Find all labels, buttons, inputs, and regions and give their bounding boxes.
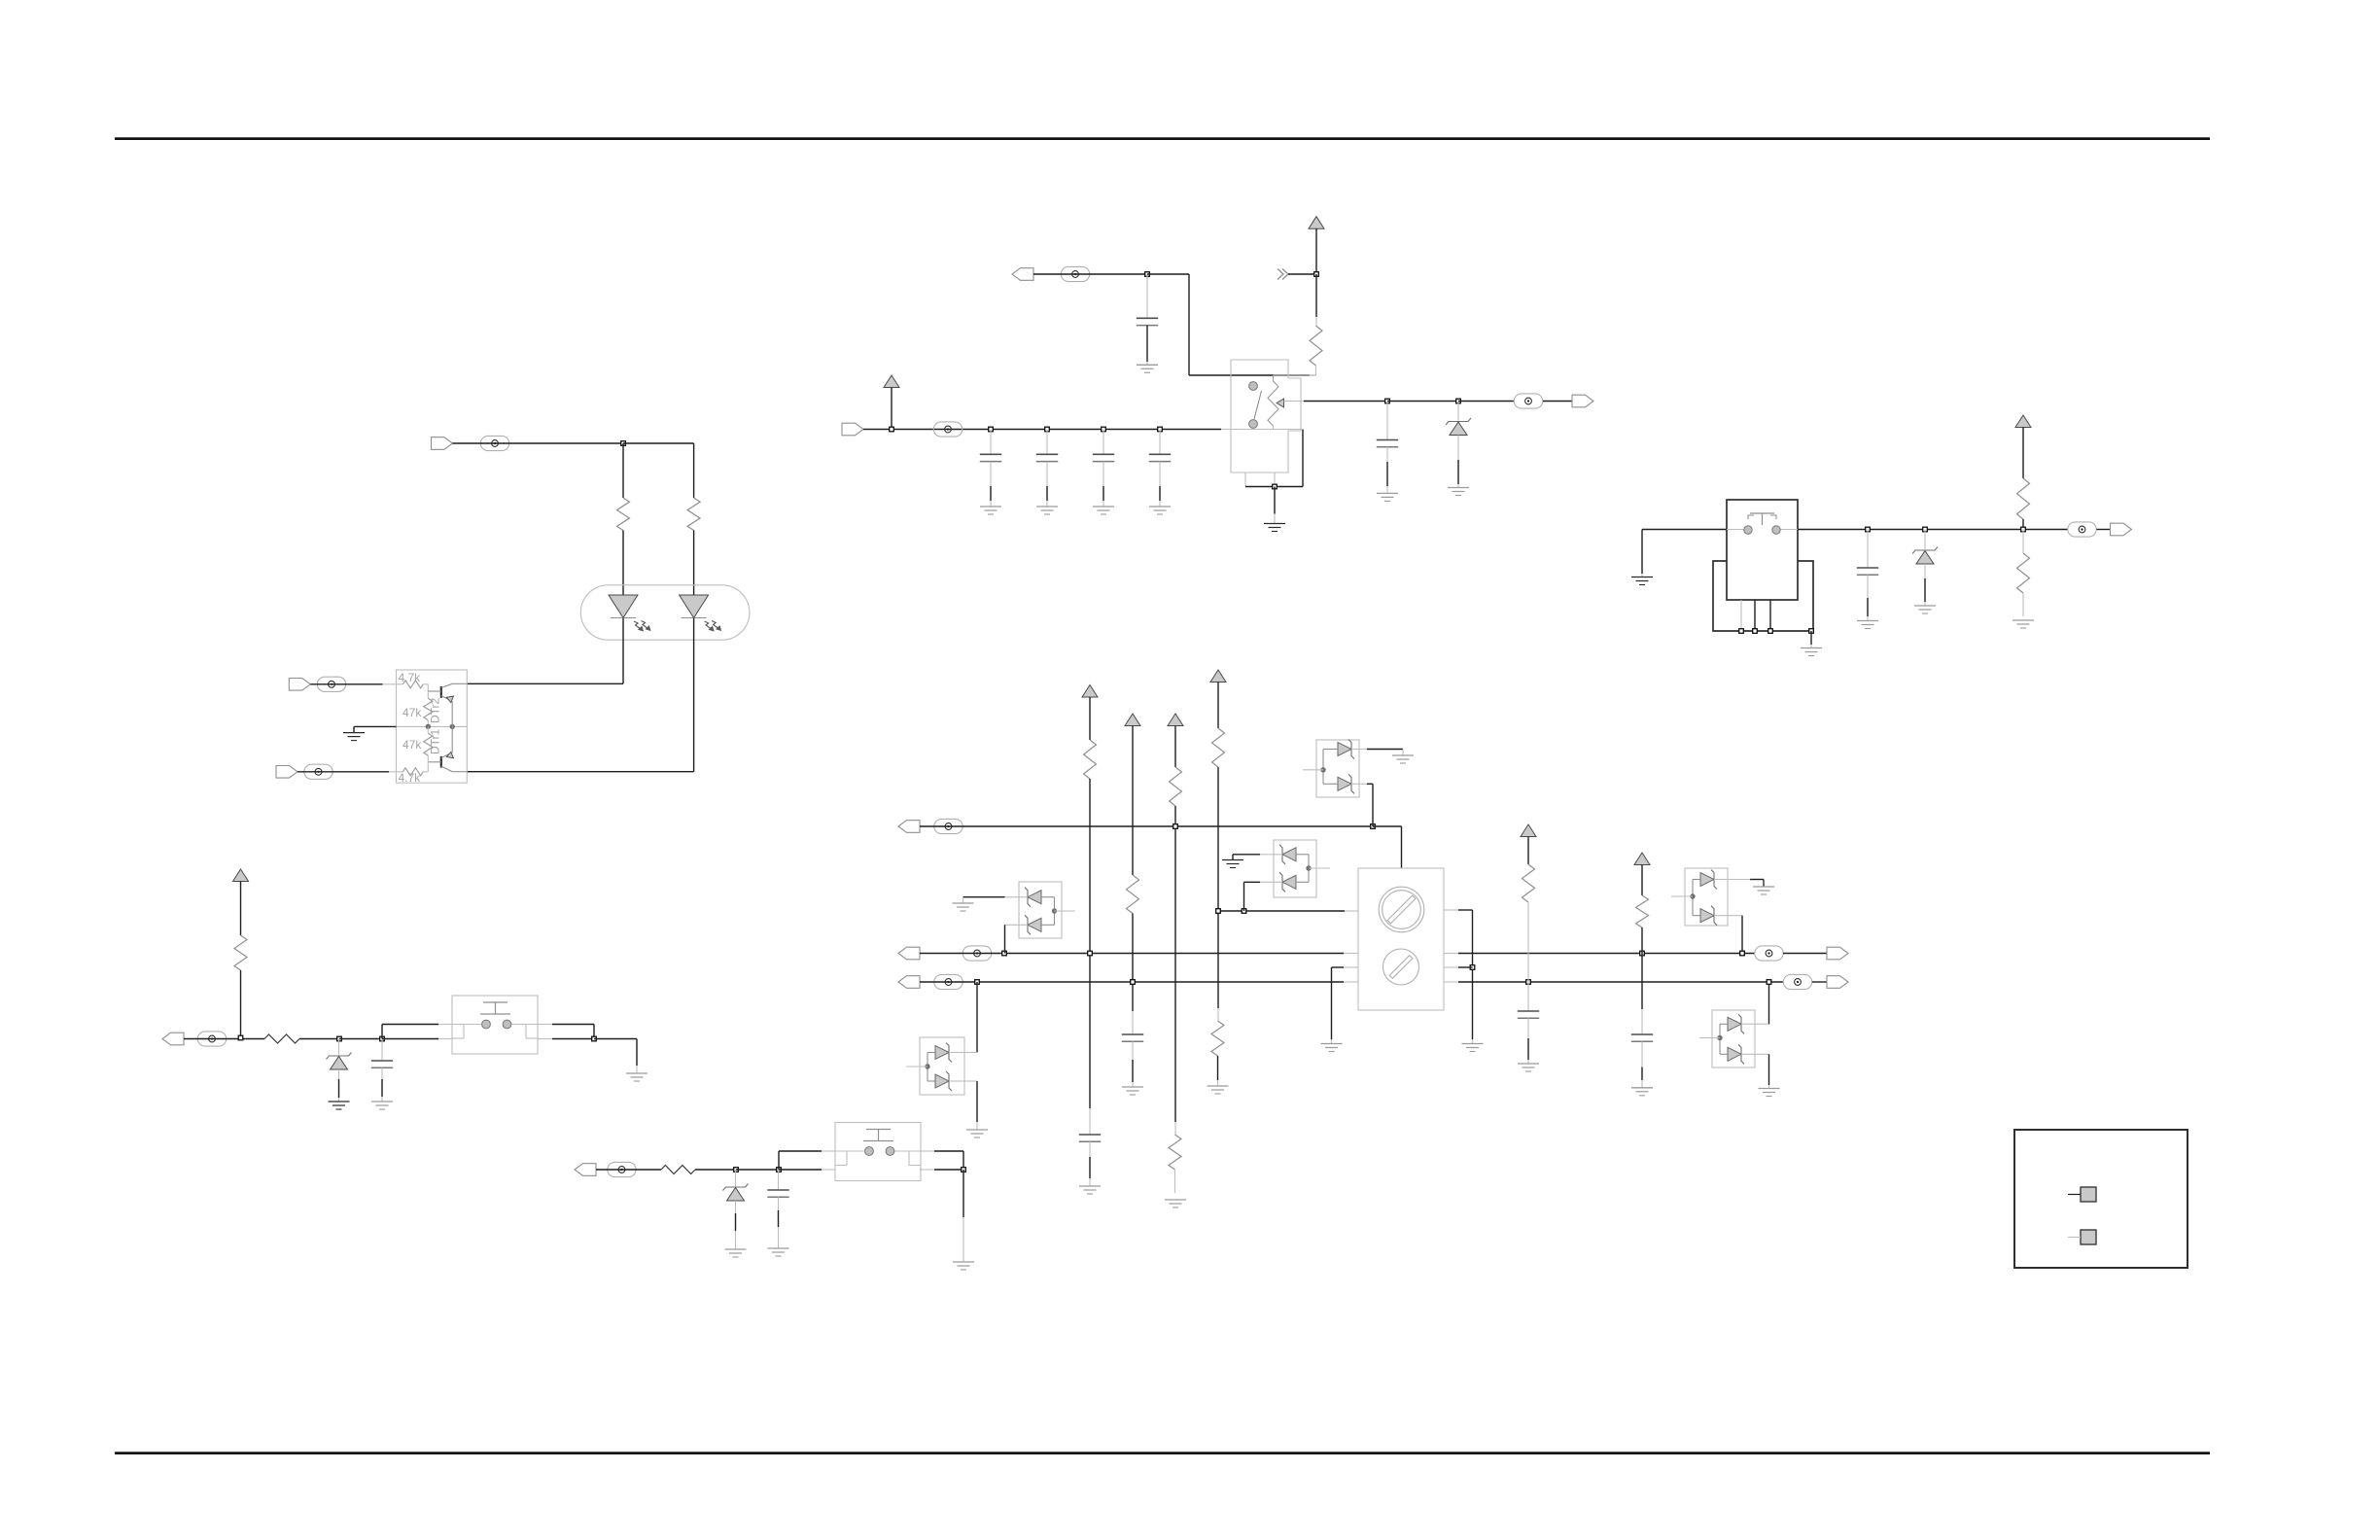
wire (component lead) bbox=[381, 1067, 383, 1079]
wire to ground bbox=[962, 1170, 964, 1217]
ESD diode D4b bbox=[1700, 906, 1717, 926]
wire (component lead) bbox=[1386, 447, 1388, 462]
wire (component lead) bbox=[1132, 1011, 1134, 1034]
ground for RV1 right bbox=[1462, 1044, 1484, 1052]
node D3 common bbox=[1052, 909, 1056, 913]
wire frame ground bbox=[1810, 631, 1812, 645]
wire bbox=[1217, 1056, 1219, 1080]
capacitor C7 bbox=[1857, 568, 1878, 575]
connector arrow (LED control 1) bbox=[289, 679, 310, 691]
ESD diode pack D3 outline bbox=[1019, 882, 1062, 938]
wire net C vertical bbox=[1174, 806, 1176, 1122]
wire bbox=[1924, 578, 1926, 602]
wire F+ stem bbox=[1132, 726, 1134, 876]
power rail H+ bbox=[1210, 670, 1226, 682]
ground for C5 bbox=[1093, 507, 1114, 514]
wire (component lead) bbox=[1344, 966, 1358, 968]
wire (component lead) bbox=[1132, 1041, 1134, 1060]
wire (component lead) bbox=[1344, 953, 1358, 955]
wire (component lead) bbox=[1102, 462, 1104, 486]
wire down to switch bbox=[1188, 274, 1190, 375]
junction frame pin 2 bbox=[1753, 629, 1758, 634]
wire (component lead) bbox=[1728, 915, 1742, 917]
wire (component lead) bbox=[1005, 924, 1020, 926]
potentiometer R4 element bbox=[1268, 381, 1278, 426]
D5 common wire bbox=[1720, 1024, 1728, 1054]
wire LED cathode A bbox=[622, 618, 624, 684]
wire bbox=[736, 1169, 779, 1171]
junction bus A / R12 bbox=[1173, 824, 1178, 829]
wire bbox=[1641, 530, 1643, 575]
wire (component lead) bbox=[964, 1052, 977, 1054]
switch S2 contact a bbox=[1744, 526, 1752, 534]
junction bus C / D5 bbox=[1767, 980, 1771, 985]
wire jog down bbox=[962, 1151, 964, 1170]
wire bus net B out bbox=[1458, 953, 1755, 955]
resistor R10 (pull-up) bbox=[1084, 740, 1097, 779]
ferrite bead E13 bbox=[1755, 946, 1783, 961]
zener diode VR2 bbox=[1912, 547, 1938, 565]
wire to ground bbox=[1472, 910, 1474, 1039]
wire to button contact bbox=[382, 1024, 438, 1026]
zener diode VR3 bbox=[327, 1053, 352, 1070]
ESD diode D3a bbox=[1025, 888, 1041, 907]
connector J2 pin 2 lead bbox=[2068, 1237, 2081, 1239]
ferrite bead E5 bbox=[1514, 394, 1542, 408]
wire from button contact bbox=[552, 1024, 594, 1026]
potentiometer R4 wiper arrow bbox=[1277, 399, 1284, 407]
wire R16 lead bbox=[1527, 902, 1529, 982]
wire (component lead) bbox=[1457, 484, 1459, 488]
wire (component lead) bbox=[735, 1201, 737, 1213]
ground for D3a bbox=[953, 903, 974, 911]
wire bbox=[1367, 783, 1373, 785]
S2 frame pin 3 bbox=[1769, 600, 1771, 631]
wire (component lead) bbox=[1714, 915, 1728, 917]
connector arrow (switched supply out) bbox=[1012, 268, 1033, 281]
connector arrow (net C out) bbox=[1827, 976, 1848, 989]
wire pot right pin bbox=[1458, 909, 1473, 911]
wire (component lead) bbox=[1019, 924, 1028, 926]
wire (component lead) bbox=[990, 501, 992, 507]
D2 common stub bbox=[1309, 867, 1330, 869]
connector arrow (supply in) bbox=[842, 423, 863, 436]
ESD diode D3b bbox=[1025, 915, 1041, 934]
junction button output node bbox=[592, 1036, 597, 1041]
ESD diode D5b bbox=[1728, 1044, 1744, 1064]
connector arrow (button 2 out) bbox=[575, 1164, 596, 1176]
trimmer RV1a bbox=[1379, 887, 1424, 932]
wire (component lead) bbox=[427, 684, 429, 699]
capacitor C9 bbox=[767, 1190, 788, 1197]
ESD diode pack D5 outline bbox=[1712, 1010, 1755, 1067]
LED DS1b bbox=[680, 595, 709, 618]
wire (component lead) bbox=[1472, 1039, 1474, 1044]
wire to button base bbox=[382, 1038, 438, 1040]
connector arrow (net B) bbox=[898, 947, 920, 960]
ESD diode D6a bbox=[935, 1043, 952, 1063]
wire I+ stem bbox=[1527, 837, 1529, 865]
wire (component lead) bbox=[1402, 750, 1404, 756]
ground for C4 bbox=[1036, 507, 1058, 514]
ground for RV1 left bbox=[1321, 1044, 1343, 1052]
wire (component lead) bbox=[1005, 896, 1020, 898]
resistor R13 bbox=[1169, 1135, 1181, 1170]
LED DS1a bbox=[609, 595, 638, 618]
ground for D6b bbox=[966, 1130, 988, 1137]
node D5 common bbox=[1718, 1035, 1722, 1039]
junction B+ node bbox=[1314, 272, 1319, 277]
power switch S2 actuator bbox=[1748, 513, 1776, 525]
wire D5a to bus C out bbox=[1768, 982, 1770, 1024]
resistor 47k upper bbox=[424, 698, 433, 719]
wire bbox=[1641, 927, 1643, 1009]
wire S2 internal stub right bbox=[1781, 529, 1799, 531]
power switch S2 inner case bbox=[1727, 500, 1798, 600]
wire bbox=[1147, 273, 1189, 275]
D4 common stub bbox=[1671, 895, 1693, 897]
junction bus B / ESD bbox=[1002, 951, 1007, 956]
S2 frame pin 1 bbox=[1740, 600, 1742, 631]
ESD diode pack D4 outline bbox=[1685, 868, 1728, 926]
wire bbox=[1046, 486, 1048, 501]
svg-text:47k: 47k bbox=[402, 706, 422, 719]
wire (component lead) bbox=[1046, 462, 1048, 486]
ground stub D4a bbox=[1763, 880, 1765, 888]
off-page chevron (raw supply) bbox=[1277, 269, 1288, 280]
wire bbox=[1302, 430, 1304, 487]
wire (component lead) bbox=[538, 1024, 552, 1026]
wire (component lead) bbox=[1274, 514, 1276, 524]
svg-text:4.7k: 4.7k bbox=[399, 671, 422, 684]
wire (component lead) bbox=[1386, 486, 1388, 493]
value label 47k (upper) bbox=[402, 706, 422, 719]
junction frame corner bbox=[1809, 629, 1814, 634]
connector arrow (button 1 out) bbox=[162, 1032, 184, 1045]
wire internal switch bus bbox=[1231, 429, 1288, 431]
ground for R13 bbox=[1165, 1200, 1186, 1207]
wire (component lead) bbox=[1315, 366, 1317, 375]
resistor R8 (series) bbox=[264, 1034, 299, 1043]
ferrite bead E14 bbox=[1783, 974, 1811, 989]
wire (component lead) bbox=[949, 1080, 964, 1082]
ground stub D3a bbox=[962, 897, 964, 903]
wire (component lead) bbox=[383, 683, 403, 685]
value label 4.7k (upper) bbox=[399, 671, 422, 684]
resistor 4.7k base DTr1 bbox=[402, 768, 423, 776]
designator DTr2 bbox=[429, 697, 442, 723]
wire (component lead) bbox=[1221, 429, 1231, 431]
ground for S2 frame bbox=[1801, 648, 1822, 656]
connector J2 pin pad 2 bbox=[2081, 1230, 2096, 1244]
svg-text:4.7k: 4.7k bbox=[399, 771, 422, 785]
wire J+ stem bbox=[1641, 865, 1643, 896]
wire (component lead) bbox=[1810, 645, 1812, 648]
wire (component lead) bbox=[1527, 982, 1529, 1011]
ground for C10 bbox=[1079, 1186, 1101, 1194]
wire bbox=[1458, 401, 1514, 402]
wire (component lead) bbox=[962, 1217, 964, 1262]
ESD diode D1b bbox=[1338, 774, 1354, 793]
wire bbox=[1159, 486, 1161, 501]
wire net D vertical bbox=[1217, 767, 1219, 1008]
ESD diode pack D6 outline bbox=[920, 1037, 964, 1095]
wire bbox=[1132, 1060, 1134, 1082]
pushbutton switch S3 bbox=[452, 996, 538, 1054]
wire supply bus bbox=[863, 429, 1221, 431]
junction bus C / R16 bbox=[1526, 980, 1531, 985]
ground for C6 bbox=[1149, 507, 1171, 514]
wire (component lead) bbox=[1174, 1170, 1176, 1193]
wire (component lead) bbox=[1867, 530, 1869, 569]
power rail F+ bbox=[1125, 714, 1140, 726]
wire frame stub bbox=[1288, 429, 1303, 431]
wire (component lead) bbox=[1641, 1009, 1643, 1034]
wire D3a to ground bbox=[963, 896, 1005, 898]
wire (component lead) bbox=[1768, 1085, 1770, 1089]
capacitor C1 bbox=[1137, 318, 1158, 325]
junction pull-up tap bbox=[238, 1035, 243, 1040]
wire (component lead) bbox=[427, 720, 429, 727]
junction bus B / R follower bbox=[1640, 951, 1645, 956]
wire button 2 net bbox=[596, 1169, 661, 1171]
resistor R7 (pull-up) bbox=[234, 935, 247, 970]
wire (component lead) bbox=[1019, 896, 1028, 898]
connector arrow (switch sense out) bbox=[2111, 523, 2132, 536]
ground stub bbox=[353, 726, 355, 732]
switch/potentiometer S1/R4 outline bbox=[1231, 360, 1301, 472]
wire (component lead) bbox=[1174, 1122, 1176, 1135]
wire into pot block bbox=[1401, 826, 1403, 868]
wire bus net C out bbox=[1458, 981, 1783, 983]
ground for VR1 bbox=[1448, 488, 1469, 496]
capacitor C4 bbox=[1036, 454, 1058, 461]
ESD diode D1a bbox=[1338, 740, 1354, 759]
wire (component lead) bbox=[1641, 1041, 1643, 1067]
wire D1b to bus A bbox=[1372, 784, 1374, 826]
wire (component lead) bbox=[920, 1150, 934, 1152]
wire (component lead) bbox=[964, 1080, 977, 1082]
ferrite bead E1 bbox=[480, 436, 508, 450]
D2 common wire bbox=[1296, 855, 1309, 883]
ESD diode D4a bbox=[1700, 870, 1717, 890]
power rail I+ bbox=[1521, 824, 1536, 837]
ground for C13 bbox=[1631, 1088, 1653, 1096]
designator DTr1 bbox=[429, 728, 442, 754]
ferrite bead E11 bbox=[962, 946, 991, 961]
ferrite bead E7 bbox=[2068, 522, 2096, 537]
resistor R15 bbox=[1211, 1021, 1224, 1056]
wire (component lead) bbox=[1274, 854, 1282, 856]
wire (component lead) bbox=[427, 726, 429, 733]
wire (component lead) bbox=[1274, 472, 1276, 487]
wire (component lead) bbox=[1102, 430, 1104, 455]
wire bbox=[1331, 967, 1333, 1039]
wire to right LED resistor bbox=[623, 442, 694, 444]
wire D4b to bus B out bbox=[1741, 916, 1743, 954]
transistor DTr1 bbox=[428, 726, 467, 771]
wire (component lead) bbox=[1244, 472, 1246, 487]
wire bus net D bbox=[1218, 910, 1345, 912]
bottom border rule bbox=[115, 1452, 2210, 1454]
connector J2 outline bbox=[2014, 1130, 2187, 1268]
junction bypass C5 bbox=[1102, 427, 1106, 432]
wire D6b to ground bbox=[976, 1081, 978, 1122]
wire (component lead) bbox=[1315, 317, 1317, 326]
wire (component lead) bbox=[636, 1066, 638, 1073]
wire wiper stub bbox=[1284, 401, 1305, 402]
wire bbox=[1102, 486, 1104, 501]
ferrite bead E2 bbox=[317, 677, 345, 691]
wire emitter common bbox=[354, 725, 397, 727]
wire (component lead) bbox=[1444, 981, 1458, 983]
power switch S2 outer frame bbox=[1713, 561, 1813, 631]
wire (component lead) bbox=[427, 762, 429, 772]
connector J2 pin 1 lead bbox=[2068, 1194, 2081, 1196]
node emitter common bbox=[450, 724, 454, 728]
wire bbox=[1458, 966, 1473, 968]
pushbutton switch S4 bbox=[835, 1123, 921, 1181]
wire jog down bbox=[593, 1025, 595, 1039]
wire (component lead) bbox=[778, 1197, 780, 1210]
ground for C2 bbox=[1377, 493, 1398, 501]
wire bus net A bbox=[920, 825, 1373, 827]
wire bbox=[2097, 529, 2111, 531]
resistor R3 (pot top feed) bbox=[1310, 326, 1322, 366]
wire R3 to pot top bbox=[1274, 375, 1316, 381]
junction bypass C6 bbox=[1158, 427, 1163, 432]
resistor R14 (pull-up) bbox=[1212, 728, 1225, 767]
power rail A+ bbox=[884, 375, 899, 388]
ferrite bead E4 bbox=[1061, 266, 1089, 281]
junction bus D / R14 bbox=[1216, 909, 1221, 914]
LED DS1a emission arrows bbox=[634, 621, 650, 632]
D6 common wire bbox=[927, 1053, 935, 1082]
power rail E+ bbox=[1082, 685, 1098, 698]
wire to power switch bbox=[1642, 529, 1727, 531]
switch S1 contact a bbox=[1249, 382, 1258, 391]
wire bbox=[1386, 462, 1388, 486]
wire (component lead) bbox=[1344, 981, 1358, 983]
wire S2 internal stub left bbox=[1727, 529, 1744, 531]
wire to ground bbox=[636, 1039, 638, 1067]
junction VR3 node bbox=[337, 1036, 342, 1041]
wire H+ stem bbox=[1217, 682, 1219, 729]
wire (component lead) bbox=[822, 1150, 835, 1152]
wire button 1 net bbox=[184, 1038, 264, 1040]
wire (component lead) bbox=[427, 755, 429, 762]
wire bus net B bbox=[920, 953, 1344, 955]
wire (component lead) bbox=[1351, 749, 1367, 751]
capacitor C2 bbox=[1377, 440, 1398, 447]
D4 common wire bbox=[1693, 880, 1700, 916]
wire G+ stem bbox=[1174, 726, 1176, 768]
wire C+ stem bbox=[2022, 428, 2024, 479]
ESD diode D6b bbox=[935, 1071, 952, 1091]
wire bbox=[622, 531, 624, 597]
wire (component lead) bbox=[735, 1170, 737, 1186]
wire to button contact bbox=[779, 1150, 822, 1152]
junction C9 node bbox=[777, 1168, 782, 1172]
D1 common stub bbox=[1303, 769, 1323, 771]
transistor DTr2 bbox=[428, 683, 467, 726]
wire (component lead) bbox=[778, 1170, 780, 1190]
wire (component lead) bbox=[1351, 783, 1367, 785]
wire (component lead) bbox=[1755, 1023, 1769, 1025]
wire from button base bbox=[934, 1169, 963, 1171]
ground for D2a bbox=[1222, 860, 1243, 868]
wire bbox=[1146, 326, 1148, 362]
ground for C7 bbox=[1857, 621, 1878, 629]
wire (component lead) bbox=[423, 771, 428, 773]
wire (component lead) bbox=[990, 462, 992, 486]
junction bus D / ESD bbox=[1242, 909, 1246, 914]
ground for S1 frame bbox=[1264, 524, 1285, 532]
wire switch frame bbox=[1245, 486, 1303, 488]
wire (component lead) bbox=[1527, 1018, 1529, 1038]
connector arrow J1 (LED supply in) bbox=[432, 437, 453, 450]
wire bbox=[1315, 274, 1317, 317]
wire (component lead) bbox=[1444, 966, 1458, 968]
power rail J+ bbox=[1634, 853, 1650, 865]
wire from button contact bbox=[934, 1150, 963, 1152]
wire bbox=[1373, 825, 1402, 827]
power rail D+ bbox=[233, 869, 249, 882]
wire (component lead) bbox=[1102, 501, 1104, 507]
wire bbox=[990, 486, 992, 501]
wire bbox=[693, 443, 695, 498]
value label 4.7k (lower) bbox=[399, 771, 422, 785]
wire bbox=[1457, 460, 1459, 484]
wire input 1 bbox=[310, 683, 382, 685]
wire (component lead) bbox=[438, 1024, 452, 1026]
wire jog up bbox=[778, 1151, 780, 1170]
D1 common wire bbox=[1323, 750, 1338, 785]
wire internal emitter rail bbox=[397, 725, 468, 727]
junction VR4 node bbox=[734, 1168, 739, 1172]
wire D4a to ground bbox=[1750, 879, 1764, 881]
ground for VR3 bbox=[329, 1102, 350, 1109]
ground for S3 bbox=[626, 1073, 647, 1081]
wire bbox=[1089, 1157, 1091, 1178]
junction C8 node bbox=[380, 1036, 385, 1041]
wire D1a to ground bbox=[1367, 749, 1403, 751]
wire (component lead) bbox=[949, 1052, 964, 1054]
ferrite bead E3 bbox=[304, 764, 332, 779]
digital transistor array U1 outline bbox=[397, 670, 468, 783]
ground for D1a bbox=[1392, 755, 1414, 763]
wire (component lead) bbox=[1924, 602, 1926, 606]
wire (component lead) bbox=[438, 1038, 452, 1040]
D3 common wire bbox=[1041, 897, 1055, 926]
wire (component lead) bbox=[1444, 909, 1458, 911]
top border rule bbox=[115, 137, 2210, 140]
wire to button base bbox=[779, 1169, 822, 1171]
wire to DTr2 collector bbox=[467, 682, 623, 684]
svg-text:47k: 47k bbox=[402, 738, 422, 752]
wire switched output bbox=[1798, 529, 2068, 531]
junction C7 node bbox=[1866, 527, 1871, 532]
resistor R16 bbox=[1522, 864, 1535, 902]
node base-divider DTr1/2 bbox=[426, 724, 430, 728]
wire D+ stem bbox=[240, 882, 242, 936]
junction bus C / R11 bbox=[1131, 980, 1136, 985]
wire (component lead) bbox=[1159, 462, 1161, 486]
wire (component lead) bbox=[2022, 593, 2024, 616]
resistor 47k lower bbox=[424, 733, 433, 755]
wire (component lead) bbox=[1217, 1008, 1219, 1021]
ESD diode D5a bbox=[1728, 1014, 1744, 1033]
